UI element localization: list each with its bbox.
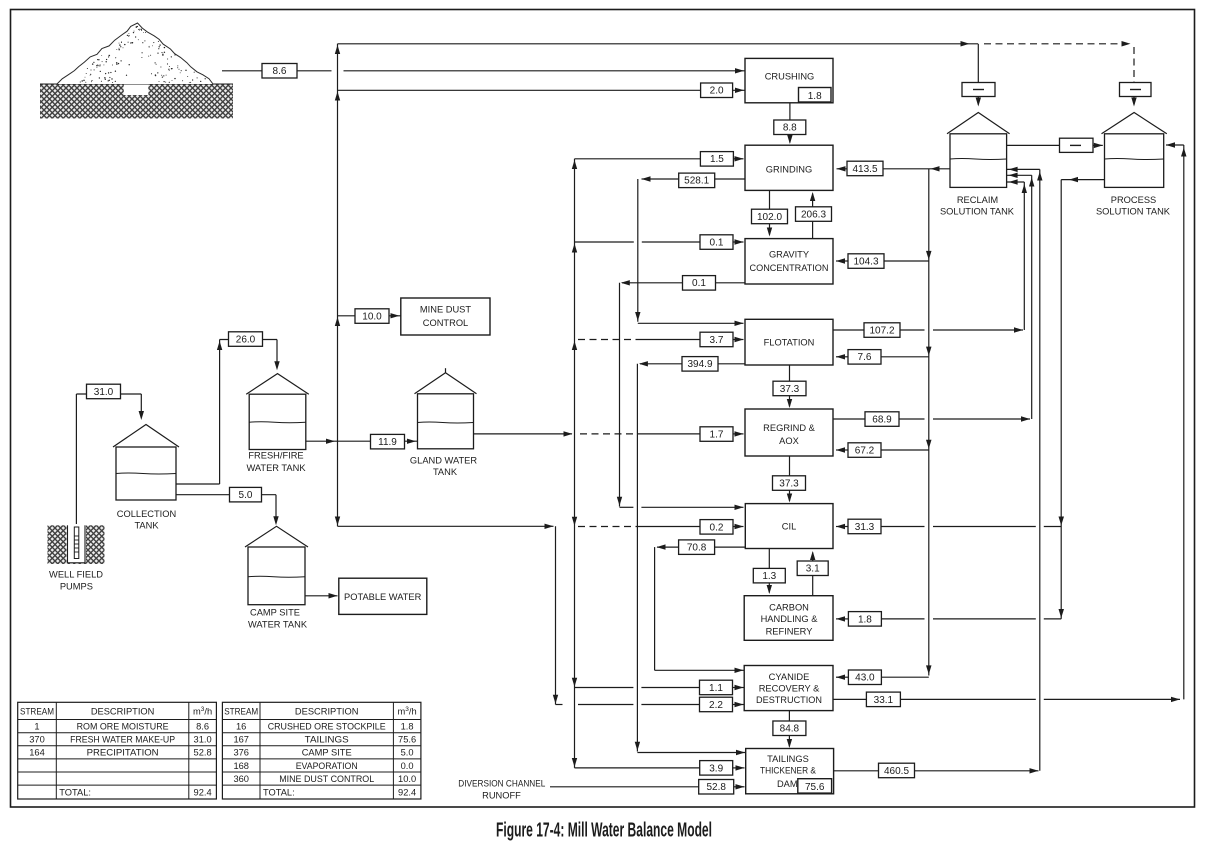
flow line 70.8 CIL to cyanide recovery <box>655 544 745 673</box>
flow line 43.0 to cyanide recovery <box>836 675 929 680</box>
svg-text:DESCRIPTION: DESCRIPTION <box>91 706 155 716</box>
value box 3.1 <box>797 561 828 576</box>
flow line 31.0 well pumps to collection tank <box>76 394 144 524</box>
process box TAILINGS THICKENER DAM <box>746 749 834 794</box>
svg-text:31.0: 31.0 <box>94 387 114 398</box>
svg-text:CAMP SITE: CAMP SITE <box>302 748 352 758</box>
camp site water tank <box>245 526 308 604</box>
svg-text:DESCRIPTION: DESCRIPTION <box>295 706 359 716</box>
svg-text:1.1: 1.1 <box>709 683 723 694</box>
svg-text:CRUSHED ORE STOCKPILE: CRUSHED ORE STOCKPILE <box>268 721 386 731</box>
svg-text:PRECIPITATION: PRECIPITATION <box>87 748 159 758</box>
value box 70.8 <box>679 540 715 555</box>
svg-text:0.1: 0.1 <box>692 278 706 289</box>
value box 2.2 <box>700 697 733 712</box>
value box 413.5 <box>847 161 883 176</box>
svg-text:1.3: 1.3 <box>762 571 776 582</box>
value box 0.2 <box>700 520 733 535</box>
svg-text:168: 168 <box>233 761 249 771</box>
svg-text:75.6: 75.6 <box>398 735 416 745</box>
flow line 37.3 regrind to CIL <box>787 456 792 503</box>
svg-text:TAILINGS: TAILINGS <box>767 754 809 764</box>
svg-text:STREAM: STREAM <box>20 706 54 716</box>
value box 3.7 <box>700 332 733 347</box>
value box 43.0 <box>848 670 881 685</box>
flow line 3.7 to flotation <box>578 337 744 342</box>
value box 75.6 inside tailings <box>798 779 832 793</box>
value box 52.8 <box>699 780 734 795</box>
flow line 8.8 crushing to grinding <box>787 103 792 144</box>
label GLAND WATER TANK <box>410 456 477 478</box>
svg-text:DESTRUCTION: DESTRUCTION <box>756 695 822 705</box>
svg-text:STREAM: STREAM <box>224 706 258 716</box>
svg-text:1.7: 1.7 <box>710 429 724 440</box>
svg-text:3.9: 3.9 <box>709 763 723 774</box>
svg-text:THICKENER &: THICKENER & <box>760 765 817 775</box>
svg-text:43.0: 43.0 <box>855 673 875 684</box>
flow line 206.3 gravity to grinding <box>810 192 815 238</box>
evaporation box between tanks <box>1007 138 1103 152</box>
svg-text:31.3: 31.3 <box>855 522 875 533</box>
svg-text:HANDLING &: HANDLING & <box>761 614 819 624</box>
flow line 1.7 gland water to regrind <box>474 431 744 436</box>
value box 37.3 lower <box>773 476 806 491</box>
value box 107.2 <box>864 323 900 338</box>
svg-text:376: 376 <box>233 748 249 758</box>
svg-text:528.1: 528.1 <box>684 176 709 187</box>
flow line top bus to evaporation <box>338 41 1135 83</box>
svg-text:52.8: 52.8 <box>706 782 726 793</box>
svg-text:REFINERY: REFINERY <box>766 626 813 636</box>
svg-text:52.8: 52.8 <box>194 748 212 758</box>
svg-text:68.9: 68.9 <box>872 414 892 425</box>
stream table left <box>18 702 217 799</box>
svg-text:FLOTATION: FLOTATION <box>764 338 815 348</box>
svg-text:CONTROL: CONTROL <box>423 318 468 328</box>
svg-text:TOTAL:: TOTAL: <box>59 787 91 797</box>
flow line 2.0 to crushing <box>338 88 746 93</box>
label CAMP SITE WATER TANK <box>248 608 308 630</box>
svg-text:11.9: 11.9 <box>378 437 397 448</box>
svg-text:92.4: 92.4 <box>194 787 212 797</box>
svg-text:TOTAL:: TOTAL: <box>263 787 295 797</box>
svg-text:33.1: 33.1 <box>874 695 894 706</box>
value box 1.8 carbon <box>848 612 881 627</box>
svg-text:360: 360 <box>233 774 249 784</box>
value box 37.3 upper <box>773 381 806 396</box>
return riser x=1031 into reclaim tank <box>1007 173 1035 419</box>
process box GRAVITY CONCENTRATION <box>745 239 833 284</box>
svg-text:GRINDING: GRINDING <box>766 165 813 175</box>
value box 206.3 <box>796 207 832 222</box>
svg-text:MINE DUST: MINE DUST <box>420 305 471 315</box>
svg-text:31.0: 31.0 <box>194 735 212 745</box>
process box CIL <box>745 504 833 549</box>
value box 1.1 <box>700 680 733 695</box>
svg-text:75.6: 75.6 <box>805 782 825 793</box>
flow line 3.1 carbon handling to CIL <box>810 551 815 596</box>
flow line 0.2 to CIL <box>578 524 744 529</box>
value box 84.8 <box>773 721 806 736</box>
svg-text:ROM ORE MOISTURE: ROM ORE MOISTURE <box>77 721 169 731</box>
svg-text:3.1: 3.1 <box>806 564 820 575</box>
flow line 460.5 tailings to reclaim tank <box>834 768 1039 773</box>
svg-text:FRESH/FIRE: FRESH/FIRE <box>248 450 303 460</box>
flow line 413.5 reclaim tank to grinding <box>837 166 951 171</box>
value box 67.2 <box>848 443 881 458</box>
ore stockpile mound <box>57 23 213 84</box>
evaporation box process <box>1120 83 1152 107</box>
svg-text:CARBON: CARBON <box>769 602 809 612</box>
svg-text:1.5: 1.5 <box>710 154 724 165</box>
mine dust control box <box>401 298 490 335</box>
label RECLAIM SOLUTION TANK <box>940 195 1015 216</box>
flow line 0.1 to gravity concentration <box>575 239 744 244</box>
svg-text:37.3: 37.3 <box>779 478 799 489</box>
svg-text:10.0: 10.0 <box>362 311 382 322</box>
svg-text:10.0: 10.0 <box>398 774 416 784</box>
svg-text:413.5: 413.5 <box>852 164 877 175</box>
flow line 1.5 to grinding <box>575 156 744 161</box>
svg-text:PROCESS: PROCESS <box>1111 195 1156 205</box>
process box GRINDING <box>745 145 833 190</box>
vertical bus x=337 fresh water distribution <box>335 44 340 527</box>
flow line 67.2 to regrind <box>836 447 929 452</box>
svg-text:CRUSHING: CRUSHING <box>765 72 815 82</box>
value box 31.0 <box>87 384 121 399</box>
process solution tank <box>1102 113 1167 188</box>
svg-text:2.2: 2.2 <box>709 700 723 711</box>
svg-text:PUMPS: PUMPS <box>60 581 93 591</box>
collection tank <box>113 425 179 501</box>
flow line 10.0 to mine dust control <box>338 313 401 318</box>
flow line 8.6 stockpile to crushing <box>222 68 745 73</box>
svg-text:460.5: 460.5 <box>884 766 909 777</box>
flow line process tank to CIL via x=1061 <box>1059 177 1105 619</box>
value box 0.1 lower <box>683 276 716 291</box>
value box 460.5 <box>879 763 915 778</box>
svg-text:TAILINGS: TAILINGS <box>305 735 349 745</box>
value box 10.0 <box>355 309 389 324</box>
svg-text:RECOVERY &: RECOVERY & <box>759 683 820 693</box>
svg-text:CAMP SITE: CAMP SITE <box>250 608 300 618</box>
svg-text:92.4: 92.4 <box>398 787 416 797</box>
flow line 37.3 flotation to regrind <box>787 365 792 408</box>
svg-text:394.9: 394.9 <box>687 359 712 370</box>
flow line 84.8 cyanide to tailings <box>787 711 792 748</box>
gland water tank <box>415 368 477 449</box>
flow line camp site to potable water <box>305 593 338 599</box>
svg-text:Figure 17-4: Mill Water Balanc: Figure 17-4: Mill Water Balance Model <box>496 820 712 842</box>
return riser x=1024 into reclaim tank <box>1007 179 1027 330</box>
evaporation box reclaim <box>962 83 995 107</box>
svg-text:70.8: 70.8 <box>687 543 707 554</box>
value box 11.9 <box>371 434 405 449</box>
svg-text:0.2: 0.2 <box>710 522 724 533</box>
svg-text:TANK: TANK <box>134 521 159 531</box>
flow line 107.2 flotation to reclaim tank <box>833 327 1023 332</box>
svg-text:0.1: 0.1 <box>710 237 724 248</box>
svg-text:370: 370 <box>29 735 45 745</box>
svg-text:67.2: 67.2 <box>855 445 875 456</box>
ore stockpile ground <box>40 84 233 119</box>
svg-text:1.8: 1.8 <box>858 614 872 625</box>
potable water box <box>339 578 427 614</box>
value box 0.1 upper <box>700 235 733 250</box>
flow line 1.3 CIL to carbon handling <box>767 549 772 595</box>
flow line 104.3 to gravity concentration <box>836 258 929 263</box>
flow line 68.9 regrind to reclaim tank <box>833 416 1030 421</box>
label PROCESS SOLUTION TANK <box>1096 195 1171 216</box>
svg-text:CYANIDE: CYANIDE <box>769 672 810 682</box>
svg-text:AOX: AOX <box>779 436 799 446</box>
value box 5.0 <box>230 487 262 502</box>
svg-text:5.0: 5.0 <box>239 490 253 501</box>
svg-text:FRESH WATER MAKE-UP: FRESH WATER MAKE-UP <box>70 735 175 745</box>
value box 3.9 <box>700 761 733 776</box>
caption Figure 17-4 Mill Water Balance Model <box>496 820 712 842</box>
value box 1.5 <box>700 152 733 167</box>
svg-text:3.7: 3.7 <box>710 335 724 346</box>
value box 1.3 <box>753 568 785 583</box>
svg-text:SOLUTION TANK: SOLUTION TANK <box>940 206 1015 216</box>
svg-text:GRAVITY: GRAVITY <box>769 250 809 260</box>
svg-text:REGRIND &: REGRIND & <box>763 423 815 433</box>
value box 528.1 <box>679 173 715 188</box>
value box 2.0 <box>701 83 733 98</box>
value box 68.9 <box>865 412 899 427</box>
flow line 11.9 freshfire to gland tank <box>306 439 417 444</box>
value box 394.9 <box>682 357 718 372</box>
value box 102.0 <box>752 209 788 224</box>
svg-text:RECLAIM: RECLAIM <box>957 195 998 205</box>
flow line 0.1 gravity to CIL via x=619 <box>617 280 745 510</box>
flow line 26.0 collection to freshfire tank <box>176 340 280 485</box>
vertical bus x=574 gland water distribution <box>572 159 577 768</box>
svg-text:8.8: 8.8 <box>783 123 797 134</box>
svg-text:DAM: DAM <box>777 779 798 789</box>
svg-text:WATER TANK: WATER TANK <box>248 620 308 630</box>
svg-text:MINE DUST CONTROL: MINE DUST CONTROL <box>279 774 374 784</box>
vertical bus x=928 reclaim water distribution <box>926 169 932 676</box>
svg-text:2.0: 2.0 <box>710 86 724 97</box>
well field pumps <box>48 524 105 564</box>
freshfire water tank <box>246 374 309 450</box>
svg-text:167: 167 <box>233 735 249 745</box>
process box CRUSHING <box>745 58 833 102</box>
flow line 3.9 to tailings thickener <box>575 765 745 770</box>
svg-text:COLLECTION: COLLECTION <box>117 509 176 519</box>
svg-text:TANK: TANK <box>433 467 458 477</box>
svg-text:7.6: 7.6 <box>858 352 872 363</box>
reclaim solution tank <box>947 113 1010 188</box>
label FRESH/FIRE WATER TANK <box>246 450 306 473</box>
value box 26.0 <box>229 332 263 347</box>
svg-text:WATER TANK: WATER TANK <box>246 463 306 473</box>
flow line 2.2 via x=555 to cyanide recovery <box>338 524 744 708</box>
process box REGRIND AOX <box>745 409 833 456</box>
svg-text:26.0: 26.0 <box>236 334 256 345</box>
value box 1.8 inside crushing <box>799 88 832 103</box>
process box FLOTATION <box>745 319 833 365</box>
svg-text:1.8: 1.8 <box>808 91 822 102</box>
svg-text:107.2: 107.2 <box>869 325 894 336</box>
value box 8.8 <box>774 120 806 135</box>
svg-text:1.8: 1.8 <box>401 721 414 731</box>
svg-text:37.3: 37.3 <box>780 384 800 395</box>
label COLLECTION TANK <box>117 509 176 531</box>
svg-text:RUNOFF: RUNOFF <box>482 791 521 801</box>
label DIVERSION CHANNEL RUNOFF <box>458 779 545 801</box>
svg-text:5.0: 5.0 <box>401 748 414 758</box>
svg-text:104.3: 104.3 <box>853 256 878 267</box>
svg-text:POTABLE WATER: POTABLE WATER <box>344 592 422 602</box>
svg-text:WELL FIELD: WELL FIELD <box>49 570 103 580</box>
flow line 5.0 collection to camp site tank <box>176 495 279 526</box>
flow line 7.6 to flotation <box>836 354 929 359</box>
svg-text:164: 164 <box>29 748 45 758</box>
svg-text:CIL: CIL <box>782 522 796 532</box>
flow line 394.9 flotation to tailings via x=637 <box>635 361 745 755</box>
svg-text:CONCENTRATION: CONCENTRATION <box>750 263 829 273</box>
value box 8.6 <box>262 64 297 79</box>
svg-text:1: 1 <box>34 721 39 731</box>
flow line 31.3 to CIL <box>836 524 1061 529</box>
svg-text:206.3: 206.3 <box>801 209 826 220</box>
value box 7.6 <box>848 350 881 365</box>
svg-text:8.6: 8.6 <box>196 721 209 731</box>
svg-text:GLAND WATER: GLAND WATER <box>410 456 477 466</box>
flow line 33.1 cyanide to process tank <box>833 142 1187 702</box>
process box CARBON HANDLING REFINERY <box>744 596 833 641</box>
svg-text:8.6: 8.6 <box>273 66 287 77</box>
value box 1.7 <box>700 427 733 442</box>
flow line 102.0 grinding to gravity <box>767 190 772 236</box>
stream table right <box>222 702 421 799</box>
flow line 528.1 grinding to flotation <box>635 176 745 326</box>
label WELL FIELD PUMPS <box>49 570 103 592</box>
flow line 1.8 to carbon handling <box>836 616 1061 621</box>
svg-text:SOLUTION TANK: SOLUTION TANK <box>1096 206 1171 216</box>
value box 33.1 <box>866 692 900 707</box>
svg-text:0.0: 0.0 <box>401 761 414 771</box>
return riser x=1039 into reclaim tank <box>1007 167 1043 771</box>
svg-text:EVAPORATION: EVAPORATION <box>296 761 358 771</box>
value box 104.3 <box>848 254 884 268</box>
flow line diversion channel runoff 52.8 <box>550 784 745 789</box>
svg-text:16: 16 <box>236 721 246 731</box>
svg-text:DIVERSION CHANNEL: DIVERSION CHANNEL <box>458 779 545 789</box>
value box 31.3 <box>848 519 881 534</box>
svg-text:84.8: 84.8 <box>780 724 800 735</box>
svg-text:102.0: 102.0 <box>757 212 782 223</box>
process box CYANIDE RECOVERY DESTRUCTION <box>744 666 833 711</box>
flow line 1.1 to cyanide recovery <box>575 685 744 690</box>
